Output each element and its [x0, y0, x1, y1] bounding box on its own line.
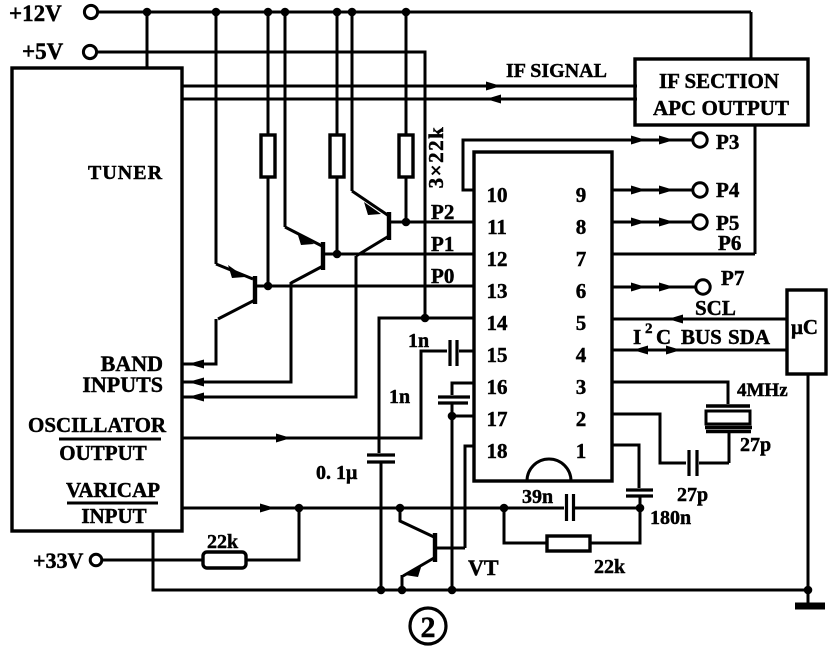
arrow P7 b — [659, 283, 674, 292]
wire P0 line — [257, 285, 474, 288]
resistor R1 22k — [261, 12, 275, 287]
capacitor 0.1u — [367, 455, 395, 590]
wire tuner ground drop — [153, 531, 810, 590]
transistor Q2 — [183, 12, 323, 382]
wire +5V bus — [96, 52, 425, 318]
svg-text:2: 2 — [576, 407, 587, 431]
IF section box — [635, 59, 808, 125]
resistor R3 22k — [399, 12, 413, 222]
arrow SCL — [668, 315, 683, 324]
node varicap 22k junction — [295, 504, 304, 513]
node pin17 junction — [448, 412, 457, 421]
ground symbol — [795, 590, 825, 606]
svg-text:0. 1μ: 0. 1μ — [316, 462, 358, 484]
svg-text:I: I — [633, 325, 641, 349]
node 39n left junction — [500, 504, 509, 513]
wire IF signal line — [183, 85, 637, 88]
wire SCL pin5 to uC — [612, 318, 787, 321]
svg-text:39n: 39n — [522, 486, 553, 508]
arrow IF signal — [486, 82, 501, 91]
svg-text:1n: 1n — [408, 330, 429, 352]
svg-text:P3: P3 — [716, 130, 739, 154]
svg-text:17: 17 — [487, 407, 508, 431]
transistor Q3 — [183, 12, 255, 364]
wire +33V to 22k — [102, 559, 203, 562]
svg-text:P1: P1 — [431, 232, 454, 256]
transistor VT — [400, 508, 435, 590]
node ground uC — [804, 586, 813, 595]
node R1-P0 junction — [264, 282, 273, 291]
arrow P3 a — [631, 136, 646, 145]
capacitor 1n pin16-17 — [438, 397, 470, 403]
svg-text:7: 7 — [576, 247, 587, 271]
svg-text:9: 9 — [576, 183, 587, 207]
svg-text:APC OUTPUT: APC OUTPUT — [653, 96, 789, 120]
svg-text:SDA: SDA — [728, 325, 771, 349]
capacitor 27p — [689, 450, 729, 476]
wire pin18 to VT base — [465, 446, 474, 548]
svg-text:TUNER: TUNER — [88, 162, 163, 184]
svg-text:4: 4 — [576, 343, 587, 367]
svg-text:10: 10 — [487, 183, 508, 207]
svg-text:SCL: SCL — [695, 296, 736, 320]
svg-text:13: 13 — [487, 279, 508, 303]
arrow P5 a — [631, 218, 646, 227]
svg-text:3×22k: 3×22k — [424, 126, 448, 189]
capacitor 180n — [626, 490, 653, 508]
figure number 2 — [410, 608, 446, 644]
arrow SDA b — [666, 346, 681, 355]
svg-text:180n: 180n — [650, 507, 691, 529]
node 180n junction — [636, 504, 645, 513]
wire pin14 +5V feed — [379, 318, 474, 453]
wire IF section bottom to P6 line — [754, 125, 757, 254]
svg-text:P2: P2 — [431, 200, 454, 224]
arrow varicap — [260, 504, 275, 513]
wire pin17 stub — [452, 415, 474, 418]
arrow oscillator — [276, 434, 291, 443]
svg-text:+12V: +12V — [9, 1, 62, 26]
node R3-P2 junction — [402, 218, 411, 227]
svg-text:+5V: +5V — [22, 39, 64, 64]
svg-text:3: 3 — [576, 375, 587, 399]
arrow P7 a — [631, 283, 646, 292]
arrow APC — [486, 95, 501, 104]
wire pin7 to IF section (P6) — [612, 253, 755, 256]
svg-text:P4: P4 — [716, 178, 740, 202]
terminal +12V — [9, 1, 98, 26]
arrow band input 2 — [188, 378, 204, 387]
wire pin2 to 27p cap — [612, 414, 686, 463]
resistor R2 22k — [330, 12, 344, 255]
wire +12V bus — [97, 11, 751, 14]
node +5V pin14 junction — [421, 314, 430, 323]
svg-text:IF SECTION: IF SECTION — [659, 69, 779, 93]
svg-text:27p: 27p — [740, 434, 771, 456]
terminal P5 — [693, 211, 740, 235]
svg-text:5: 5 — [576, 311, 587, 335]
svg-text:18: 18 — [487, 439, 508, 463]
svg-text:22k: 22k — [594, 556, 626, 578]
wire P1 line — [325, 253, 474, 256]
IC notch — [527, 459, 571, 481]
svg-text:IF SIGNAL: IF SIGNAL — [506, 60, 607, 82]
wire pin16 hook — [452, 383, 474, 395]
svg-text:P6: P6 — [718, 231, 741, 255]
wire VT base — [437, 547, 465, 550]
arrow P5 b — [659, 218, 674, 227]
arrow P4 a — [631, 186, 646, 195]
wire +12V drop to IF section — [750, 12, 753, 59]
svg-text:VT: VT — [468, 555, 499, 580]
node ground VT emitter — [398, 586, 407, 595]
svg-text:P7: P7 — [721, 266, 744, 290]
svg-text:2: 2 — [645, 321, 653, 337]
svg-text:P0: P0 — [431, 264, 454, 288]
crystal X1 4MHz — [705, 406, 752, 463]
wire pin10 to P3 — [463, 140, 692, 190]
node VT collector junction — [396, 504, 405, 513]
arrow SDA a — [633, 346, 648, 355]
svg-text:15: 15 — [487, 343, 508, 367]
terminal P4 — [693, 178, 740, 202]
IC U1 box — [474, 152, 612, 481]
svg-text:INPUT: INPUT — [81, 504, 146, 528]
svg-text:OUTPUT: OUTPUT — [59, 441, 147, 465]
svg-text:16: 16 — [487, 375, 508, 399]
tuner box — [12, 68, 182, 531]
terminal +5V — [22, 39, 97, 64]
wire cap to pin17 and ground — [451, 404, 454, 590]
node junction top bus — [143, 8, 411, 17]
svg-text:11: 11 — [487, 215, 507, 239]
svg-text:μC: μC — [791, 315, 818, 339]
arrow band input 1 — [188, 360, 204, 369]
wire APC line — [183, 98, 637, 101]
svg-text:+33V: +33V — [33, 548, 84, 573]
svg-text:2: 2 — [421, 611, 436, 644]
wire pin8 to P5 — [612, 221, 693, 224]
svg-text:BUS: BUS — [681, 325, 722, 349]
wire pin3 to crystal — [612, 382, 728, 404]
svg-text:C: C — [656, 325, 671, 349]
capacitor 1n pin15 — [450, 340, 474, 366]
arrow P4 b — [659, 186, 674, 195]
terminal P7 — [696, 266, 745, 294]
wire pin6 to P7 — [612, 286, 696, 289]
wire pin1 to 180n — [612, 445, 639, 488]
terminal +33V — [33, 548, 102, 573]
resistor 22k varicap — [203, 508, 299, 568]
svg-text:OSCILLATOR: OSCILLATOR — [28, 413, 167, 437]
wire varicap line right — [575, 507, 640, 510]
svg-text:22k: 22k — [207, 531, 239, 553]
terminal P3 — [693, 130, 740, 154]
wire pin9 to P4 — [612, 189, 693, 192]
node ground 1n — [448, 586, 457, 595]
wire +12V to tuner — [146, 12, 149, 68]
transistor Q1 — [183, 12, 389, 397]
svg-text:1n: 1n — [389, 386, 410, 408]
svg-text:6: 6 — [576, 279, 587, 303]
wire uC to ground — [807, 374, 810, 589]
node R2-P1 junction — [333, 250, 342, 259]
wire varicap line left — [183, 507, 564, 510]
svg-text:VARICAP: VARICAP — [66, 478, 160, 502]
svg-text:12: 12 — [487, 247, 508, 271]
capacitor 39n — [567, 494, 574, 521]
wire SDA pin4 to uC — [612, 349, 787, 352]
svg-text:27p: 27p — [677, 484, 708, 506]
resistor 22k loop filter — [504, 508, 640, 551]
wire oscillator output line — [183, 351, 447, 438]
arrow band input 3 — [188, 393, 204, 402]
arrow P3 b — [659, 136, 674, 145]
microcontroller uC box — [787, 290, 826, 374]
wire P2 line — [389, 221, 474, 224]
label I2C BUS SDA — [633, 321, 771, 349]
svg-text:14: 14 — [487, 311, 509, 335]
svg-text:1: 1 — [576, 439, 587, 463]
node ground 0.1u — [377, 586, 386, 595]
svg-text:4MHz: 4MHz — [737, 380, 788, 401]
svg-text:8: 8 — [576, 215, 587, 239]
svg-text:INPUTS: INPUTS — [82, 372, 163, 397]
